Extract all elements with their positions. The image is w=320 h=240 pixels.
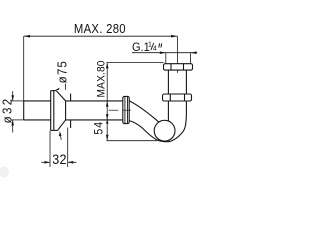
dimension line MAX.280 (24, 35, 178, 37)
extension line G right (190, 53, 192, 64)
centerline of inlet pipe (dash-dot) (109, 109, 119, 111)
extension line left (wall end) (23, 36, 25, 101)
trap ball (154, 120, 175, 141)
faint print smudge (0, 167, 9, 178)
top nut (164, 64, 193, 70)
54 arrow up (tip at pipe bottom, below) (106, 120, 109, 124)
dimension line G.1 1/4 (132, 52, 197, 54)
leader arrow top of flange (ø75) (55, 88, 60, 91)
MAX.80 arrow up (tip at nut ext) (106, 63, 109, 69)
arrow left G dim (160, 51, 166, 54)
pipe bottom edge (flange to nut) (66, 119, 123, 121)
wire: inlet pipe top edge (wall side) (24, 100, 51, 102)
ø32 dim line bottom + arrow up (12, 120, 14, 133)
MAX.80 arrow up (tip at pipe top) (106, 101, 109, 107)
arrow right G dim (191, 51, 197, 54)
svg-text:1: 1 (148, 41, 152, 48)
extension line trap bottom (107, 140, 158, 142)
inlet union nut (123, 96, 129, 123)
outlet pipe left edge lower (167, 101, 169, 121)
svg-text:MAX. 280: MAX. 280 (74, 21, 126, 36)
pipe open end at wall (23, 101, 25, 120)
32 extension line right (67, 128, 69, 167)
ø32 dim line top + arrow down (12, 91, 14, 101)
54 arrow down (tip at pipe bottom) (106, 114, 109, 120)
32 dim line left + arrow right (41, 161, 50, 163)
svg-text:54: 54 (93, 121, 106, 135)
extension line ø32 top (11, 100, 24, 102)
32 dim line right + arrow left (68, 161, 77, 163)
extension line ø32 bottom (11, 119, 24, 121)
trap inner (upper) curve (129, 101, 159, 122)
arrow right MAX.280 (171, 35, 177, 38)
flange cone bottom (58, 120, 66, 130)
combined vertical dim line MAX.80 + 54 (106, 63, 108, 141)
svg-text:4: 4 (153, 45, 157, 52)
svg-text:ø75: ø75 (55, 60, 70, 83)
extension line G left (165, 53, 167, 64)
wall flange plate (50, 91, 52, 131)
ring on pipe after cone (70, 94, 72, 101)
32 extension line left (49, 131, 51, 167)
leader line below ø75 text (64, 84, 66, 90)
arrow left MAX.280 (24, 35, 30, 38)
extension line right (outlet centerline) (177, 36, 179, 64)
flange cone top (56, 91, 65, 101)
outlet pipe between nuts (167, 70, 169, 94)
centerline stub below top nut (177, 70, 179, 73)
54 arrow down (tip at trap bottom ext) (106, 135, 109, 141)
MAX.80 extension line from top nut (106, 62, 163, 64)
pipe top edge (flange to nut) (66, 100, 123, 102)
bottom nut (163, 94, 192, 101)
svg-text:MAX.80: MAX.80 (96, 60, 107, 97)
flange cone small end (65, 101, 67, 120)
wire: inlet pipe bottom edge (wall side) (24, 119, 51, 121)
leader arrow bottom of flange (ø75) (60, 134, 61, 140)
trap outer (lower) curve and shell (129, 101, 186, 142)
svg-text:32: 32 (52, 151, 67, 167)
